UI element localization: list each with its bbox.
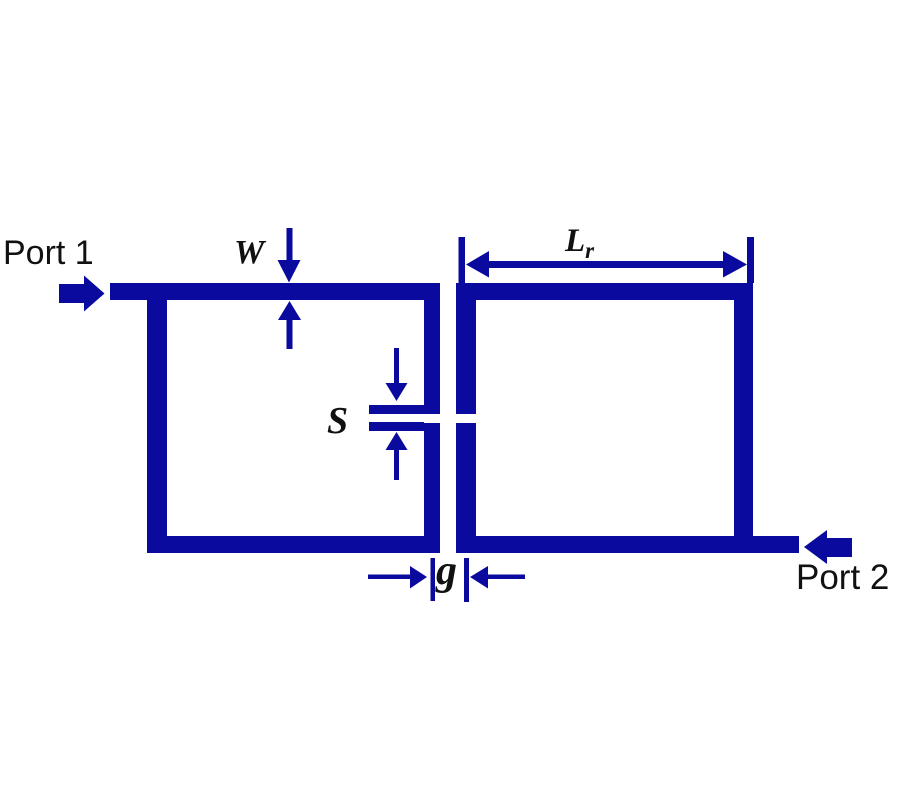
dimension W down arrow [278,228,301,283]
capacitor stub top plate [369,405,424,414]
resonator 1 right arm upper segment [424,283,440,414]
resonator 2 top arm [456,283,753,300]
dimension Lr double arrow [466,251,747,278]
svg-text:S: S [327,400,348,442]
svg-text:W: W [234,234,267,271]
dimension S up arrow [386,432,408,480]
capacitor stub bottom plate [369,422,424,431]
resonator 2 right arm [734,283,753,553]
dimension g left tick [431,558,436,601]
resonator 1 top arm with feed line [110,283,440,300]
resonator 1 bottom arm [147,536,440,553]
dimension Lr left tick [459,237,466,283]
Port 1 feed arrow [59,276,105,312]
resonator 1 left arm [147,283,167,553]
dimension g right arrow [470,566,525,589]
resonator 2 bottom arm with feed line [456,536,799,553]
svg-text:Port 2: Port 2 [796,558,889,597]
dimension S down arrow [386,348,408,401]
resonator 1 right arm lower segment [424,423,440,553]
dimension W up arrow [278,301,301,349]
Port 2 feed arrow [804,530,852,564]
dimension g right tick [464,558,469,602]
resonator 2 left arm upper segment [456,283,476,414]
resonator 2 left arm lower segment [456,423,476,553]
svg-text:Port 1: Port 1 [3,234,94,272]
dimension Lr right tick [747,237,754,283]
svg-text:g: g [435,548,457,594]
dimension g left arrow [368,566,427,589]
